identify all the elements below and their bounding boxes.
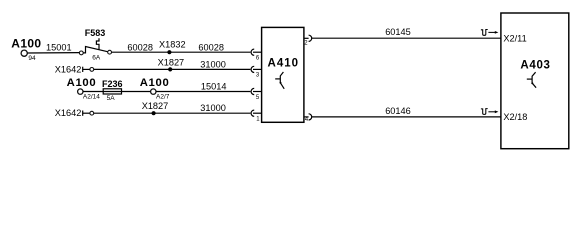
svg-text:31000: 31000 <box>200 103 226 113</box>
connector X1642 terminal (row 4) <box>90 111 94 115</box>
svg-text:60146: 60146 <box>385 106 411 116</box>
control unit A403 box <box>501 13 569 149</box>
junction X1832 <box>167 50 171 54</box>
fuse F583 element crank <box>96 38 99 50</box>
svg-text:60028: 60028 <box>198 43 224 53</box>
switch icon inside A403 <box>532 72 536 88</box>
svg-text:31000: 31000 <box>200 59 226 69</box>
control unit A410 box <box>262 27 304 122</box>
A410 pin 6 socket <box>251 49 254 55</box>
fuse F583 left terminal <box>79 51 83 55</box>
connector A100 terminal circle <box>21 50 27 56</box>
wire 15001 <box>27 52 79 54</box>
fuse F583 body <box>83 47 109 53</box>
svg-text:X1642: X1642 <box>55 64 82 74</box>
wire 60146 <box>312 116 501 118</box>
wire 31000 to A410 pin 3 <box>94 68 251 70</box>
fuse F583 right terminal <box>108 50 112 54</box>
svg-text:X1827: X1827 <box>142 101 169 111</box>
svg-text:F236: F236 <box>102 79 123 89</box>
svg-text:X2/11: X2/11 <box>503 33 526 43</box>
fuse F236 body <box>103 89 121 94</box>
connector continuation symbol (top) <box>481 30 488 36</box>
svg-text:15014: 15014 <box>201 81 227 91</box>
svg-text:X2/18: X2/18 <box>503 112 527 122</box>
A410 pin 3 socket <box>251 66 254 72</box>
A410 pin 4 plug <box>304 116 309 118</box>
svg-text:5A: 5A <box>107 95 116 102</box>
svg-text:15001: 15001 <box>46 43 72 53</box>
connector A100 A2/14 terminal <box>78 89 83 94</box>
svg-text:60145: 60145 <box>385 27 411 37</box>
connector A100 A2/7 terminal <box>151 89 156 94</box>
connector X1642 tick <box>82 67 84 72</box>
A410 pin 5 socket <box>251 88 254 94</box>
svg-text:6A: 6A <box>92 54 101 61</box>
svg-text:94: 94 <box>28 55 36 62</box>
arrow into A403 (top) <box>488 31 495 33</box>
svg-text:X1832: X1832 <box>159 39 186 49</box>
wire 31000 to A410 pin 1 <box>94 112 251 114</box>
junction X1827 <box>168 67 172 71</box>
wire from fuse F236 to A100 A2/7 <box>122 91 151 93</box>
svg-text:A100: A100 <box>67 77 97 89</box>
svg-text:F583: F583 <box>85 28 106 38</box>
connector X1642 terminal <box>90 68 94 72</box>
svg-text:A100: A100 <box>140 77 170 89</box>
connector continuation symbol (bottom) <box>481 109 488 115</box>
switch icon inside A410 <box>280 72 284 89</box>
junction X1827 (row 4) <box>152 111 156 115</box>
connector X1642 tick (row 4) <box>82 111 84 116</box>
svg-text:A2/14: A2/14 <box>83 94 100 101</box>
wire 60028 from fuse to A410 pin 6 <box>112 51 251 53</box>
arrow into A403 (bottom) <box>488 111 495 113</box>
svg-text:A100: A100 <box>11 37 41 51</box>
wire 15014 to A410 pin 5 <box>156 91 251 93</box>
wire 60145 <box>312 37 501 39</box>
wire to fuse F236 <box>83 91 103 93</box>
svg-text:A410: A410 <box>268 58 300 70</box>
svg-text:A403: A403 <box>520 59 550 71</box>
A410 pin 1 socket <box>251 110 254 116</box>
svg-text:60028: 60028 <box>127 43 153 53</box>
svg-text:X1827: X1827 <box>158 57 185 67</box>
svg-text:A2/7: A2/7 <box>156 93 170 100</box>
A410 pin 2 plug <box>304 37 309 39</box>
svg-text:X1642: X1642 <box>55 108 82 118</box>
